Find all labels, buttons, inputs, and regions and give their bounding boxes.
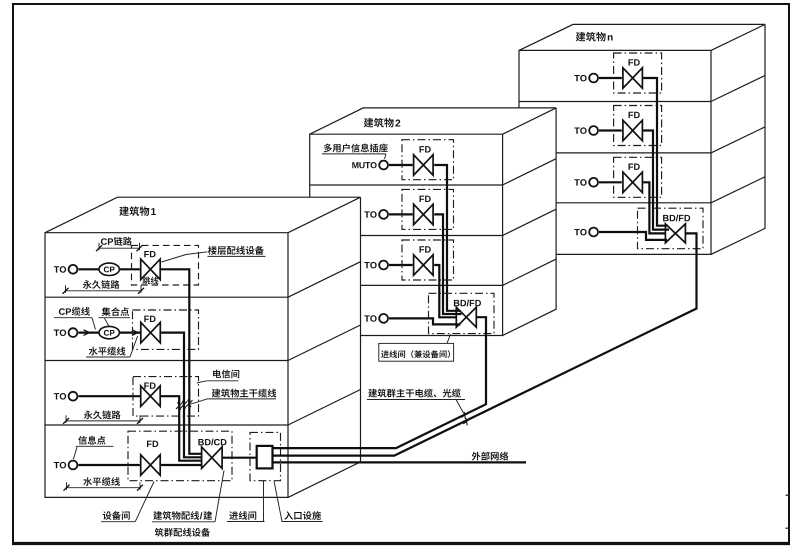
wire TO to BD/FD B2: [389, 318, 461, 324]
leader BD/FD box to label: [447, 334, 451, 343]
label building 2: [364, 118, 374, 128]
TO outlet B2F3: [379, 261, 388, 270]
wire FD BnF1 output: [643, 78, 668, 226]
label building/campus distribution equipment: [153, 511, 162, 520]
leader 进线间: [263, 481, 265, 522]
label FD BnF2: [629, 112, 634, 118]
external network line: [273, 461, 527, 463]
FD box B2F2: [402, 189, 454, 229]
building 1 floor divider lines: [45, 296, 288, 298]
wire FD B2F1 output: [434, 165, 460, 311]
building 1 box outline: [45, 197, 361, 497]
leader 水平缆线 to wire: [130, 336, 138, 357]
FD distributor B1F3: [141, 386, 161, 407]
leader backbone label to risers: [191, 399, 208, 404]
BD/FD box building 2: [429, 293, 495, 333]
BD/FD box building n: [638, 208, 704, 249]
leader 信息点 to TO: [73, 447, 77, 459]
leader 入口设施: [274, 481, 282, 522]
label TO B2F3: [364, 262, 369, 268]
TO outlet B1F4: [69, 461, 78, 470]
label TO BnF2: [574, 127, 579, 133]
label multi-user outlet 多用户信息插座: [324, 144, 332, 153]
TO outlet B1F3: [69, 392, 78, 401]
label FD BnF1: [629, 59, 634, 65]
scan ticks on right border: [786, 494, 791, 496]
BD/FD distributor building 2: [456, 307, 476, 327]
dimension line CP link B1F1: [99, 247, 140, 249]
TO outlet B2F4: [379, 314, 388, 323]
leader FD B1F1 to floor-distributor label: [162, 252, 208, 262]
label CP cable B1F2: [59, 308, 65, 315]
FD box BnF1: [614, 53, 662, 93]
label consolidation point 集合点: [102, 307, 111, 316]
leader 设备间: [135, 482, 154, 522]
leader 配线设备 to BD/CD: [215, 471, 224, 522]
leader CP cable to wire: [92, 318, 96, 330]
FD distributor B1F2: [141, 322, 161, 343]
wire TO-CP B1F1: [78, 268, 98, 270]
label telecom room 电信间: [213, 370, 221, 378]
wire MUTO-FD: [389, 164, 413, 166]
FD box BnF3: [614, 157, 662, 197]
label FD BnF3: [629, 164, 634, 170]
label external network 外部网络: [472, 452, 481, 461]
label FD B2F2: [420, 196, 425, 202]
wire FD B2F2 output: [434, 214, 461, 314]
CP consolidation point B1F2: [99, 326, 119, 338]
FD box B1F2: [133, 310, 199, 349]
wire FD B2F3 output: [434, 265, 457, 317]
label TO BnF3: [574, 179, 579, 185]
cable break marks on campus cables: [462, 412, 469, 419]
label CP link B1F1: [101, 238, 107, 245]
building 2 side face floor diagonals: [503, 159, 556, 185]
label entrance facility 入口设施: [284, 511, 293, 520]
building 2 box outline: [310, 108, 556, 336]
label permanent link 永久链路 B1F1: [83, 280, 92, 289]
TO outlet BnF2: [589, 126, 598, 135]
label TO B2F4: [364, 315, 369, 321]
wire FD B1F4 to BD/CD: [161, 464, 203, 466]
FD box B2F1: [402, 140, 454, 180]
equipment room box B1F4: [128, 431, 232, 481]
FD distributor B1F1: [141, 259, 161, 280]
cable break marks on riser cables: [176, 402, 182, 410]
TO outlet B2F2: [379, 210, 388, 219]
campus cable to building n: [273, 233, 697, 455]
label FD B2F3: [420, 246, 425, 252]
label BD/FD building n: [663, 215, 669, 221]
dimension line permanent link B1F3: [66, 420, 140, 422]
FD distributor B2F1: [414, 155, 434, 175]
wire FD B1F1 output: [161, 269, 203, 454]
label horizontal cable B1F4: [83, 477, 92, 486]
wire CP-FD B1F2: [120, 332, 140, 334]
wire TO-FD B2F3: [389, 264, 413, 266]
label building 1: [119, 206, 129, 216]
label TO B1F2: [54, 330, 59, 336]
BD/FD distributor building n: [665, 224, 685, 243]
label TO B1F4: [54, 462, 59, 468]
leader 电信间 to FD box: [197, 381, 207, 383]
leader 集合点 to CP: [105, 318, 109, 326]
wire BD/CD to entrance facility: [222, 457, 257, 459]
FD distributor BnF1: [623, 68, 643, 88]
label jumper 跳线 B1F1: [142, 277, 150, 285]
wire FD B1F3 output: [161, 396, 203, 461]
wire TO-CP B1F2: [78, 332, 98, 334]
TO outlet BnF4: [589, 228, 598, 237]
label FD B2F1: [420, 146, 425, 152]
label floor distribution equipment 楼层配线设备: [208, 246, 217, 255]
label building n: [576, 32, 586, 42]
wire TO-FD BnF3: [599, 181, 622, 183]
FD distributor BnF3: [623, 172, 643, 193]
wire FD BnF3 output: [643, 182, 666, 233]
label TO BnF4: [574, 229, 579, 235]
label FD B1F2: [144, 316, 149, 322]
wire TO-FD B1F4: [78, 464, 139, 466]
label FD B1F1: [144, 251, 149, 257]
label building backbone cable 建筑物主干缆线: [212, 389, 221, 398]
label information outlet 信息点: [78, 436, 87, 445]
wire CP-FD B1F1: [120, 268, 140, 270]
label campus backbone cable 建筑群主干电缆、光缆: [368, 389, 377, 398]
TO outlet BnF1: [589, 74, 598, 83]
label equipment room 设备间: [103, 511, 112, 520]
TO outlet B1F1: [69, 265, 78, 274]
wire TO-FD B2F2: [389, 213, 413, 215]
FD distributor BnF2: [623, 120, 643, 141]
label BD/FD building 2: [454, 300, 460, 306]
FD box B1F3: [133, 377, 199, 417]
dimension line permanent link B1F1: [66, 290, 142, 292]
FD box BnF2: [614, 106, 662, 146]
label permanent link B1F3: [84, 411, 93, 420]
leader campus backbone to cables: [456, 400, 464, 414]
CP consolidation point B1F1: [99, 263, 119, 275]
entrance facility square: [257, 446, 273, 469]
entrance facility dash-dot box: [250, 432, 281, 480]
label MUTO: [352, 162, 358, 168]
label FD B1F3: [144, 382, 149, 388]
wire FD B1F2 output: [161, 333, 202, 458]
wire FD BnF2 output: [643, 131, 669, 230]
building n box outline: [519, 24, 765, 254]
building 2 floor divider lines: [310, 184, 503, 186]
building n side face floor diagonals: [711, 76, 765, 102]
label TO B2F2: [364, 211, 369, 217]
campus cable to building 2: [273, 317, 487, 448]
wire TO-FD B1F3: [78, 395, 139, 397]
label TO B1F1: [54, 266, 59, 272]
FD box B2F3: [402, 240, 454, 280]
FD distributor B2F3: [414, 255, 434, 275]
dimension line horizontal cable B1F4: [67, 487, 141, 489]
FD distributor B2F2: [414, 204, 434, 225]
TO outlet BnF3: [589, 178, 598, 187]
entrance room label box building 2: [379, 343, 454, 361]
building 1 side face floor diagonals: [288, 262, 361, 298]
label entrance room 进线间: [229, 511, 238, 519]
FD distributor B1F4: [141, 455, 161, 475]
label horizontal cable B1F2: [89, 347, 98, 356]
TO outlet B1F2: [69, 328, 78, 337]
wire TO-FD BnF2: [599, 129, 622, 131]
building n floor divider lines: [519, 101, 711, 103]
FD box B1F1 (dashed): [132, 245, 199, 285]
MUTO outlet B2F1: [379, 161, 388, 170]
label TO B1F3: [54, 393, 59, 399]
label FD B1F4: [147, 441, 152, 447]
BD/CD building distributor: [202, 447, 223, 469]
wire TO-FD BnF1: [599, 77, 622, 79]
wire TO to BD/FD Bn: [599, 232, 667, 240]
label BD/CD: [198, 439, 204, 445]
label TO BnF1: [574, 75, 579, 81]
